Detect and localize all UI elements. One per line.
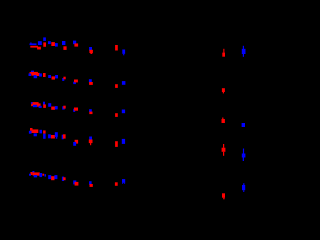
atom N r5 c	[39, 173, 42, 177]
atom O r4 k	[75, 140, 79, 144]
atom O r2 c	[36, 73, 39, 76]
atom O r1 m2	[90, 53, 92, 54]
atom O r2 j	[63, 77, 65, 80]
atom N r4 right	[242, 154, 246, 158]
label O r2 a	[30, 72, 32, 74]
atom N r5 b	[34, 175, 37, 177]
atom O r4 o	[115, 141, 118, 147]
atom N r3 l	[73, 109, 75, 112]
atom N r4 l	[73, 142, 76, 146]
label NH tick r1	[30, 42, 31, 43]
atom N r5 g	[54, 175, 57, 179]
bond stub r4 h	[56, 137, 58, 139]
atom O r3 f	[43, 104, 46, 108]
atom N r1 l	[89, 47, 92, 51]
atom O r1 n	[115, 45, 118, 51]
atom N r1 j	[73, 41, 76, 45]
atom N r3 j	[62, 106, 64, 109]
atom N r5 h	[62, 177, 64, 181]
atom N r4 m	[89, 137, 92, 140]
label O r3 a2	[33, 102, 39, 106]
bond stub r1 o	[123, 54, 124, 56]
atom O r2 g	[52, 76, 56, 79]
label NH r1	[30, 43, 37, 45]
atom N r2 f	[48, 75, 51, 78]
atom N r1 o	[122, 50, 125, 54]
bond stub N r5 right top	[243, 183, 244, 185]
atom O r4 n	[89, 140, 93, 144]
atom O r3 m	[74, 108, 78, 111]
atom O r2 o	[115, 84, 118, 88]
atom O r5 f	[51, 176, 54, 180]
atom O r5 k	[75, 182, 79, 186]
atom N r3 right	[242, 123, 245, 127]
atom O r2 l	[74, 80, 78, 83]
atom N r2 h	[55, 75, 58, 78]
label O r2 a2	[31, 72, 38, 76]
atom N r3 q	[122, 110, 125, 114]
atom N r1 b	[38, 41, 42, 45]
label O r3 a	[31, 104, 33, 106]
bond stub N r1 right bottom	[243, 54, 244, 57]
atom N r2 b	[34, 75, 38, 78]
atom O r2 n	[89, 82, 93, 85]
bond stub N r1 right top	[243, 46, 244, 49]
atom O r3 o	[89, 112, 92, 115]
label O r5 a	[30, 172, 32, 175]
atom O r3 p	[115, 113, 118, 117]
bond stub r4 n	[90, 143, 91, 145]
label O r1 a2	[37, 47, 41, 50]
bond stub O r4 right bottom	[223, 152, 224, 156]
atom N r5 e	[48, 175, 51, 179]
atom N r4 i	[62, 135, 64, 140]
atom O r5 d	[42, 174, 44, 176]
atom N r4 p	[122, 139, 125, 144]
bond stub O r3 right	[222, 118, 223, 120]
atom O r1 right	[222, 53, 225, 57]
label NH r2	[29, 73, 32, 76]
atom N r5 j	[73, 180, 76, 184]
atom N r3 g	[48, 103, 51, 107]
atom O r5 i	[63, 177, 66, 180]
atom O r5 right	[222, 193, 225, 197]
bond stub O r5 right	[223, 198, 224, 200]
bond stub N r5 right bottom	[243, 190, 244, 192]
atom O r3 k	[63, 106, 65, 109]
atom N r1 e	[48, 41, 51, 44]
atom N r4 f	[48, 134, 51, 138]
label NH r5	[29, 174, 31, 176]
molecule row 3	[31, 102, 245, 127]
atom N r3 b	[33, 105, 37, 107]
atom O r4 d	[43, 130, 46, 133]
atom N r3 d	[39, 106, 42, 108]
atom O r3 right	[222, 119, 225, 123]
bond stub N r4 right top	[243, 149, 244, 154]
bond stub O r4 right top	[223, 144, 224, 148]
atom O r4 g	[51, 135, 55, 139]
atom O r1 i	[63, 46, 66, 50]
bond stub r5 o2	[123, 183, 126, 184]
atom O r1 d	[43, 42, 46, 46]
atom N r5 o	[122, 179, 125, 183]
atom N r4 b	[34, 133, 37, 136]
molecule row 2	[29, 71, 225, 94]
atom N r1 right	[242, 49, 246, 54]
label O r1 a	[30, 46, 38, 48]
atom N r2 m	[89, 79, 92, 82]
atom N r5 d2	[45, 174, 47, 176]
bond stub r5 o1	[122, 183, 123, 184]
atom N r1 g	[55, 43, 58, 47]
bond stub O r1 right	[223, 49, 224, 53]
atom N r5 right	[242, 185, 245, 190]
label NH tick r2	[31, 71, 34, 73]
bond stub O r2 right	[223, 92, 224, 94]
atom N r1 c	[43, 37, 46, 41]
molecule row 5	[29, 171, 245, 199]
atom N r3 i	[55, 106, 58, 109]
atom N r3 e	[43, 102, 45, 105]
atom O r3 h	[51, 107, 55, 110]
atom O r1 m	[89, 50, 93, 53]
atom O r5 n	[115, 182, 118, 186]
atom O r2 e	[43, 73, 46, 77]
atom O r2 right	[222, 88, 225, 92]
atom N r4 c	[40, 130, 43, 134]
bond stub N r4 right bottom	[243, 158, 244, 162]
atom O r4 j	[63, 134, 66, 138]
label O r4 a	[32, 129, 39, 133]
atom N r4 h	[55, 132, 58, 137]
label NH tick r3	[31, 102, 33, 104]
atom O r3 c	[37, 103, 40, 106]
molecule row 1	[30, 37, 246, 56]
atom N r4 e	[43, 134, 46, 139]
label NH tick r5	[32, 171, 34, 173]
atom O r5 m	[90, 184, 93, 187]
atom N r5 l	[89, 181, 92, 185]
atom N r1 h	[62, 41, 65, 45]
label NH r4	[29, 131, 32, 134]
atom N r2 i	[62, 78, 64, 81]
atom N r3 n	[89, 109, 92, 112]
molecule row 4	[29, 128, 246, 161]
label O r4 tick	[30, 128, 33, 131]
atom N r2 d	[39, 73, 42, 76]
atom N r2 k	[73, 82, 76, 84]
atom O r1 f	[51, 42, 55, 46]
atom N r2 p	[122, 81, 126, 85]
atom O r1 k	[74, 43, 78, 46]
label O r5 a2	[33, 172, 40, 175]
atom O r4 right	[222, 148, 226, 152]
